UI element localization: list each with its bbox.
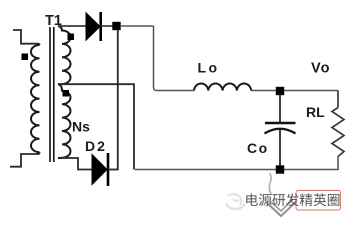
- wire Lo to Vo rail: [251, 90, 338, 92]
- diode D1: [86, 13, 100, 40]
- transformer core line 1: [49, 27, 51, 162]
- wire down from top rail to Lo rail: [154, 26, 195, 91]
- node Vo junction: [276, 87, 284, 95]
- watermark chevron: [266, 201, 297, 216]
- wire secondary tap: [59, 84, 134, 169]
- svg-text:D2: D2: [85, 138, 107, 154]
- capacitor Co curved plate: [265, 129, 296, 134]
- wire D2 cathode to node A vertical: [108, 169, 119, 171]
- capacitor Co stub bottom: [279, 129, 281, 170]
- wire Vo rail down to RL: [337, 91, 339, 108]
- watermark arrow squiggle: [269, 173, 271, 195]
- wire node A down to D2 cathode: [117, 30, 119, 170]
- transformer secondary lower winding Ns: [58, 84, 71, 158]
- capacitor Co stub top: [279, 95, 281, 123]
- watermark text 电源研发精英圈: [246, 193, 339, 206]
- wire input bottom-left stub: [10, 154, 37, 167]
- wire input top-left stub: [13, 30, 37, 44]
- polarity dot secondary top: [68, 34, 75, 41]
- resistor RL: [332, 108, 344, 157]
- wire D1 cathode to node A: [101, 25, 113, 27]
- svg-text:Lo: Lo: [198, 60, 220, 76]
- wire RL bottom: [135, 157, 338, 170]
- wire node A right: [120, 25, 154, 27]
- svg-text:RL: RL: [306, 104, 325, 120]
- wire secondary top to D1 anode: [59, 25, 86, 27]
- watermark red box around 精英圈: [296, 191, 341, 211]
- inductor Lo: [194, 83, 251, 90]
- polarity dot primary: [22, 54, 29, 61]
- transformer secondary upper winding: [58, 26, 71, 84]
- wire Ns bottom to D2 anode: [59, 158, 92, 170]
- node Co bottom junction: [276, 165, 284, 173]
- svg-text:Ns: Ns: [72, 119, 90, 135]
- watermark logo: [226, 194, 245, 209]
- polarity dot Ns: [63, 90, 70, 97]
- capacitor Co top plate: [265, 122, 296, 125]
- svg-text:Co: Co: [247, 140, 269, 156]
- transformer core line 2: [53, 27, 55, 162]
- diode D2: [92, 155, 107, 185]
- svg-text:Vo: Vo: [311, 61, 330, 77]
- transformer T1 primary winding: [31, 44, 40, 154]
- node A junction: [112, 22, 120, 30]
